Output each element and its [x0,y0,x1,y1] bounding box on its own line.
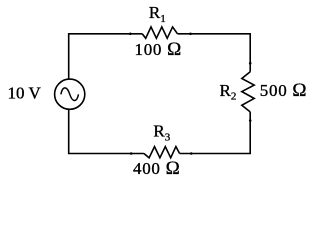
svg-text:500 Ω: 500 Ω [260,80,307,101]
svg-text:R2: R2 [220,81,237,103]
junction dot R3 left [130,152,133,155]
junction dot R2 top [249,62,252,65]
AC source sine wave [61,88,79,101]
svg-text:400 Ω: 400 Ω [133,158,180,179]
resistor R1 [142,27,177,38]
resistor R3 [144,147,180,158]
AC source V1 circle [55,79,85,109]
wire bottom-left segment [69,109,144,153]
wire top-right segment [178,34,251,72]
svg-text:R3: R3 [153,121,170,143]
resistor R2 [242,72,254,112]
junction dot R3 right [190,152,193,155]
junction dot R1 right [189,33,192,36]
svg-text:R1: R1 [149,3,166,25]
svg-text:10 V: 10 V [8,84,42,103]
wire bottom-right segment [180,112,251,154]
junction dot R2 bottom [249,119,252,122]
junction dot R1 left [129,33,132,36]
wire top-left segment [69,34,143,79]
svg-text:100 Ω: 100 Ω [135,39,182,60]
